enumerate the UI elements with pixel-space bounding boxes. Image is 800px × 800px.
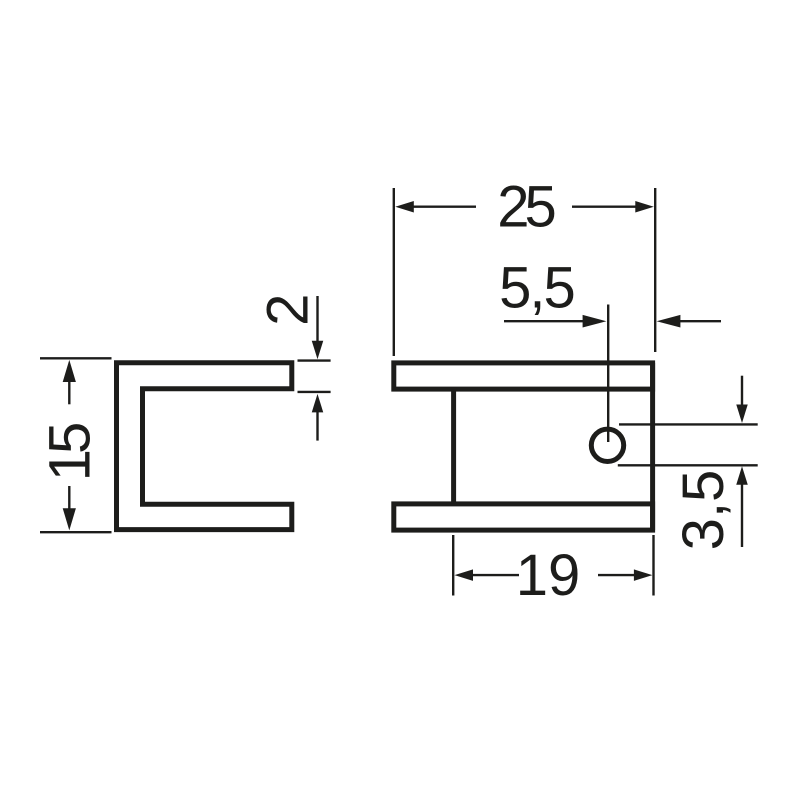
arrow 25 right xyxy=(635,201,654,213)
dim 5,5: leader shaft xyxy=(504,320,584,322)
arrow 15 top xyxy=(63,360,76,382)
dim 19: extension lines xyxy=(452,535,454,596)
dim 15: ticks xyxy=(40,357,112,359)
dim 2: ticks xyxy=(298,359,331,361)
left view: U-channel cross-section outline xyxy=(117,363,292,530)
arrow 3,5 top xyxy=(736,405,748,424)
arrow 15 bottom xyxy=(63,508,76,530)
svg-text:2: 2 xyxy=(256,294,321,326)
dim 3,5: shafts xyxy=(741,376,743,406)
svg-text:25: 25 xyxy=(497,174,554,239)
arrow 2 bottom xyxy=(312,394,324,413)
dim 19: shafts xyxy=(471,574,519,576)
dim 25: extension lines xyxy=(393,188,395,356)
svg-text:5,5: 5,5 xyxy=(499,256,574,321)
dim 5,5: right shaft xyxy=(679,320,721,322)
right view: bottom flange bar xyxy=(394,504,653,530)
dim 15: shafts xyxy=(68,381,70,404)
arrow 19 left xyxy=(455,569,474,581)
right view: web fold line xyxy=(451,389,456,504)
arrow 19 right xyxy=(634,569,653,581)
arrow 5,5 (to hole centre) xyxy=(583,315,607,328)
svg-text:15: 15 xyxy=(38,424,103,481)
arrow 5,5 (from right) xyxy=(657,315,681,328)
dim 2: shafts xyxy=(316,296,318,342)
dim 3,5: extension lines xyxy=(619,423,758,425)
right view: top flange bar xyxy=(394,363,653,389)
arrow 3,5 bottom xyxy=(736,466,748,485)
arrow 2 top xyxy=(312,341,324,360)
dim 25: shafts xyxy=(412,205,476,207)
hole centre extension line xyxy=(607,305,609,443)
right view: right edge xyxy=(650,363,655,530)
hole xyxy=(591,429,623,461)
svg-text:19: 19 xyxy=(516,543,581,608)
arrow 25 left xyxy=(395,201,414,213)
svg-text:3,5: 3,5 xyxy=(671,470,736,551)
